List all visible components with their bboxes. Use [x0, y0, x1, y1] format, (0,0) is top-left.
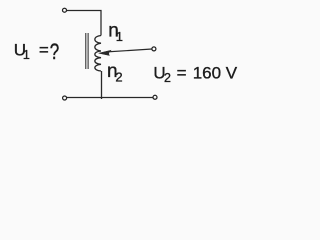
winding n1 [95, 36, 101, 52]
wire bottom horizontal [67, 97, 153, 99]
svg-text:=: = [39, 41, 49, 60]
svg-text:=: = [177, 64, 187, 83]
svg-text:?: ? [50, 40, 60, 65]
transformer core [85, 33, 87, 69]
svg-text:1: 1 [23, 48, 30, 62]
svg-text:2: 2 [164, 71, 171, 85]
terminal bottom-left [63, 96, 67, 100]
wire top (terminal to coil top) [67, 11, 101, 36]
svg-text:1: 1 [116, 29, 123, 44]
svg-text:2: 2 [115, 69, 122, 84]
tap arrowhead [99, 50, 112, 55]
label U2 = 160 V [153, 64, 237, 85]
svg-text:160 V: 160 V [193, 64, 238, 83]
winding n2 [95, 51, 101, 71]
terminal bottom-right [153, 95, 157, 99]
label U1 = ? [14, 40, 60, 65]
wire bottom vertical (coil to bottom rail, junction overshoot) [101, 71, 103, 99]
label n2 [107, 61, 123, 84]
label n1 [108, 20, 123, 44]
tap wire [107, 49, 152, 52]
terminal top-left [63, 8, 67, 12]
terminal right-middle [152, 47, 156, 51]
